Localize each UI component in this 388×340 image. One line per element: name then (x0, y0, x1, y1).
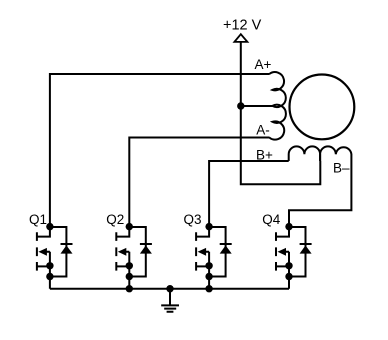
svg-text:B–: B– (333, 160, 350, 175)
svg-text:A-: A- (256, 122, 270, 137)
svg-text:Q2: Q2 (106, 212, 124, 227)
svg-text:+12 V: +12 V (223, 17, 262, 33)
svg-text:B+: B+ (256, 147, 273, 162)
svg-text:Q3: Q3 (184, 212, 202, 227)
svg-text:Q4: Q4 (262, 212, 281, 227)
svg-text:Q1: Q1 (29, 212, 47, 227)
svg-text:A+: A+ (255, 57, 272, 72)
